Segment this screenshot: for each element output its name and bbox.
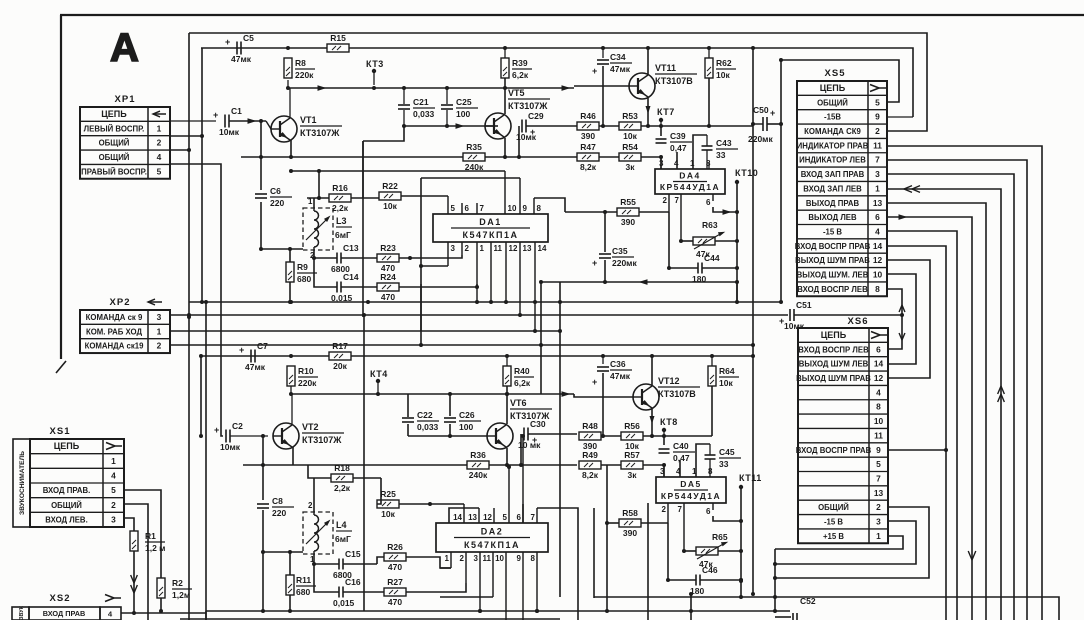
- svg-text:10: 10: [873, 270, 883, 280]
- resistor R64: [708, 366, 716, 386]
- junction: [376, 392, 380, 396]
- wire DA2 pin1 left: [440, 567, 451, 569]
- svg-text:470: 470: [388, 597, 402, 607]
- svg-text:1: 1: [876, 531, 881, 541]
- transistor VT5: [485, 113, 511, 139]
- wire base entry: [574, 85, 630, 87]
- svg-text:C40: C40: [673, 441, 689, 451]
- capacitor C1: [224, 115, 226, 128]
- wire pin1 C45: [696, 444, 710, 477]
- wire C50 wires: [767, 123, 781, 125]
- junction: [288, 609, 292, 613]
- wire DA1 pin10 rail: [291, 170, 505, 172]
- svg-text:C6: C6: [270, 186, 281, 196]
- wire L4 pin2 up: [313, 478, 315, 512]
- svg-text:4: 4: [157, 152, 162, 162]
- wire C2 to VT2 base: [230, 435, 268, 437]
- resistor R27: [384, 588, 406, 596]
- svg-text:13: 13: [874, 488, 884, 498]
- junction: [408, 256, 412, 260]
- IC DA5 bottom pins: [667, 503, 669, 523]
- svg-text:1: 1: [480, 244, 485, 253]
- svg-text:220мк: 220мк: [612, 258, 637, 268]
- svg-text:C45: C45: [719, 447, 735, 457]
- wire DA2 pin13 left: [449, 508, 479, 523]
- wire v648 low: [647, 503, 649, 620]
- IC DA4 bottom pins: [668, 194, 670, 212]
- svg-text:КТ4: КТ4: [370, 369, 388, 379]
- arrow: [998, 386, 1005, 394]
- svg-text:R25: R25: [380, 489, 396, 499]
- junction: [261, 434, 265, 438]
- junction: [682, 549, 686, 553]
- wire v560: [559, 282, 561, 597]
- resistor R58: [619, 519, 641, 527]
- svg-text:R10: R10: [298, 366, 314, 376]
- svg-text:3: 3: [474, 554, 479, 563]
- svg-text:VT2: VT2: [302, 422, 319, 432]
- svg-text:C13: C13: [343, 243, 359, 253]
- junction: [289, 155, 293, 159]
- wire L3 pin1 riser: [318, 171, 320, 198]
- wire C35: [604, 212, 606, 252]
- svg-text:R56: R56: [624, 421, 640, 431]
- transistor VT1: [271, 116, 297, 142]
- resistor R2: [157, 578, 165, 598]
- junction: [519, 463, 523, 467]
- svg-text:220мк: 220мк: [748, 134, 773, 144]
- wire VT2 collector rail: [291, 393, 574, 395]
- svg-text:R22: R22: [382, 181, 398, 191]
- junction: [710, 354, 714, 358]
- svg-text:А: А: [110, 26, 139, 70]
- svg-text:R27: R27: [387, 577, 403, 587]
- wire ground loop top: [781, 60, 899, 102]
- wire C46 line: [668, 579, 696, 581]
- svg-text:R57: R57: [624, 450, 640, 460]
- capacitor C40: [659, 448, 670, 450]
- wire R22 to DA1: [401, 195, 448, 197]
- svg-text:12: 12: [509, 244, 518, 253]
- svg-text:C21: C21: [413, 97, 429, 107]
- junction: [372, 86, 376, 90]
- svg-text:R16: R16: [332, 183, 348, 193]
- wire XS5 row8 in: [888, 189, 1001, 620]
- svg-text:1: 1: [308, 197, 313, 206]
- arrow: [899, 305, 905, 312]
- junction: [659, 155, 663, 159]
- wire bottom return top channel: [541, 281, 737, 283]
- svg-text:1: 1: [111, 456, 116, 466]
- svg-text:ВЫХОД ШУМ ПРАВ: ВЫХОД ШУМ ПРАВ: [796, 374, 871, 383]
- svg-text:ЦЕПЬ: ЦЕПЬ: [820, 83, 846, 93]
- svg-text:ОБЩИЙ: ОБЩИЙ: [51, 501, 82, 510]
- svg-text:ХS6: ХS6: [848, 316, 869, 327]
- junction: [739, 595, 743, 599]
- wire bottom bus 611: [206, 610, 790, 612]
- capacitor C36: [602, 356, 604, 364]
- svg-text:ЗВУК: ЗВУК: [19, 605, 25, 620]
- svg-text:ИНДИКАТОР ЛЕВ: ИНДИКАТОР ЛЕВ: [799, 156, 866, 165]
- svg-text:7: 7: [531, 513, 536, 522]
- wire L3 pin1 up: [313, 198, 315, 208]
- arrow: [131, 575, 138, 583]
- wire R47-R54: [599, 156, 619, 158]
- svg-text:C7: C7: [257, 341, 268, 351]
- capacitor C35: [599, 253, 611, 255]
- svg-text:R40: R40: [514, 366, 530, 376]
- svg-text:КТ3107В: КТ3107В: [658, 389, 696, 399]
- wire C15 left: [314, 563, 339, 565]
- svg-text:+: +: [225, 37, 230, 47]
- svg-text:0,033: 0,033: [413, 109, 435, 119]
- wire v692: [690, 594, 692, 620]
- svg-text:R54: R54: [622, 142, 638, 152]
- wire R9 bottom: [289, 282, 291, 302]
- svg-text:VT5: VT5: [508, 88, 525, 98]
- wire XS5 row13 to XS6 row4: [887, 260, 930, 378]
- wire XS6 row14 out: [775, 521, 916, 564]
- junction: [650, 434, 654, 438]
- svg-text:2: 2: [157, 138, 162, 148]
- svg-text:КТ3107В: КТ3107В: [655, 76, 693, 86]
- wire VT1 emitter run: [241, 156, 463, 158]
- svg-text:13: 13: [523, 244, 532, 253]
- junction: [428, 502, 432, 506]
- svg-text:10к: 10к: [381, 509, 395, 519]
- svg-text:VT6: VT6: [510, 398, 527, 408]
- svg-text:1: 1: [157, 123, 162, 133]
- capacitor C25: [446, 88, 448, 104]
- svg-text:R58: R58: [622, 508, 638, 518]
- svg-text:ОБЩИЙ: ОБЩИЙ: [817, 98, 848, 107]
- svg-text:220: 220: [272, 508, 286, 518]
- wire DA1 pin8 rail: [534, 198, 565, 212]
- junction: [445, 86, 449, 90]
- wire XP1 pin2: [170, 136, 202, 302]
- wire XP1 pin5 right drop: [170, 164, 223, 436]
- junction: [261, 609, 265, 613]
- svg-text:390: 390: [581, 131, 595, 141]
- wire VT1 collector: [289, 88, 291, 117]
- wire XS5 row15 to XS6 row2: [887, 289, 902, 349]
- svg-text:VT1: VT1: [300, 115, 317, 125]
- svg-text:КТ3107Ж: КТ3107Ж: [508, 101, 548, 111]
- junction: [132, 611, 136, 615]
- wire C14 right: [341, 286, 377, 288]
- svg-text:КОМАНДА ск19: КОМАНДА ск19: [85, 342, 145, 351]
- junction: [558, 329, 562, 333]
- svg-text:DA1: DA1: [479, 217, 502, 227]
- svg-text:8: 8: [708, 467, 713, 476]
- junction: [605, 521, 609, 525]
- wire v189 long: [188, 33, 190, 620]
- svg-text:-15 В: -15 В: [824, 518, 843, 527]
- wire VT2 emitter: [292, 447, 294, 465]
- svg-text:12: 12: [874, 373, 884, 383]
- resistor R17: [329, 352, 351, 360]
- wire pin2 drop 2: [667, 523, 669, 580]
- svg-text:ВЫХОД ШУМ. ЛЕВ: ВЫХОД ШУМ. ЛЕВ: [797, 271, 869, 280]
- resistor R49: [579, 461, 601, 469]
- svg-text:11: 11: [873, 140, 882, 150]
- junction: [289, 169, 293, 173]
- svg-text:R11: R11: [296, 575, 311, 585]
- svg-text:14: 14: [874, 359, 884, 369]
- capacitor C16: [338, 587, 340, 598]
- svg-text:2: 2: [876, 502, 881, 512]
- svg-text:ЦЕПЬ: ЦЕПЬ: [821, 330, 847, 340]
- wire C6 hang: [260, 121, 262, 190]
- svg-text:R15: R15: [330, 33, 346, 43]
- wire pin1 C43: [693, 135, 707, 169]
- svg-text:7: 7: [675, 196, 680, 205]
- svg-text:ЗВУКОСНИМАТЕЛЬ: ЗВУКОСНИМАТЕЛЬ: [19, 451, 26, 515]
- svg-text:К547КП1А: К547КП1А: [463, 230, 519, 240]
- wire R40 bottom: [506, 386, 508, 424]
- svg-text:4: 4: [676, 467, 681, 476]
- wire DA2 pin7 right: [537, 508, 578, 620]
- svg-text:ЛЕВЫЙ ВОСПР.: ЛЕВЫЙ ВОСПР.: [84, 124, 145, 133]
- resistor R39: [501, 58, 509, 78]
- svg-text:КТ10: КТ10: [735, 168, 758, 178]
- svg-text:ПРАВЫЙ ВОСПР.: ПРАВЫЙ ВОСПР.: [81, 167, 147, 176]
- wire emitter join: [485, 125, 498, 127]
- junction: [317, 196, 321, 200]
- svg-text:2: 2: [465, 244, 470, 253]
- junction: [603, 280, 607, 284]
- wire R24 out: [399, 284, 477, 287]
- svg-text:R53: R53: [622, 111, 638, 121]
- svg-text:10мк: 10мк: [219, 127, 240, 137]
- junction: [419, 264, 423, 268]
- wire L4 pin1: [313, 554, 315, 564]
- svg-text:3: 3: [111, 514, 116, 524]
- svg-text:К547КП1А: К547КП1А: [464, 540, 520, 550]
- wire XS6 row9 out: [888, 449, 946, 451]
- svg-text:1: 1: [692, 467, 697, 476]
- svg-text:9: 9: [523, 204, 528, 213]
- wire KT7 node: [660, 126, 662, 136]
- transistor VT6: [487, 423, 513, 449]
- svg-text:7: 7: [876, 473, 881, 483]
- wire VT12 collector: [651, 356, 653, 385]
- wire R23 out: [399, 255, 462, 258]
- wire base entry 2: [574, 394, 634, 397]
- svg-text:C44: C44: [704, 253, 720, 263]
- wire R55 line: [565, 211, 617, 213]
- wire R26 line: [377, 557, 384, 564]
- svg-text:+: +: [592, 377, 597, 387]
- svg-text:C39: C39: [670, 131, 686, 141]
- svg-text:6: 6: [706, 198, 711, 207]
- wire XP2 pin1 line: [170, 330, 560, 332]
- wire v421: [420, 284, 422, 331]
- capacitor C50: [753, 123, 763, 125]
- wire R25 line: [377, 478, 381, 504]
- svg-text:R64: R64: [719, 366, 735, 376]
- wire bottom edge: [180, 618, 560, 620]
- svg-text:C36: C36: [610, 359, 626, 369]
- resistor R63 variable: [693, 237, 715, 245]
- wire C34 down: [602, 66, 604, 126]
- resistor R46: [577, 122, 599, 130]
- svg-text:КТ8: КТ8: [660, 417, 678, 427]
- junction: [402, 86, 406, 90]
- svg-text:1: 1: [445, 554, 450, 563]
- svg-text:47мк: 47мк: [610, 64, 631, 74]
- svg-text:9: 9: [517, 554, 522, 563]
- junction: [200, 134, 204, 138]
- wire shield row 2: [263, 551, 303, 553]
- wire mid ground rail: [189, 301, 781, 303]
- arrow: [562, 391, 571, 397]
- junction: [601, 354, 605, 358]
- svg-text:C52: C52: [800, 596, 816, 606]
- svg-text:3: 3: [451, 244, 456, 253]
- wire komanda top: [189, 33, 927, 131]
- junction: [505, 463, 509, 467]
- transistor VT12: [633, 384, 659, 410]
- wire C13 right: [341, 257, 377, 259]
- svg-text:C8: C8: [272, 496, 283, 506]
- svg-text:14: 14: [873, 241, 883, 251]
- wire R48-R56: [601, 435, 621, 437]
- wire C16 left: [314, 564, 339, 592]
- resistor R15: [327, 44, 349, 52]
- svg-text:8: 8: [531, 554, 536, 563]
- resistor R22: [379, 192, 401, 200]
- wire XP1 pin1 to C1: [170, 120, 216, 122]
- wire R64 bottom: [711, 386, 713, 436]
- svg-text:100: 100: [459, 422, 473, 432]
- junction: [707, 46, 711, 50]
- svg-text:+: +: [770, 108, 775, 118]
- svg-text:C50: C50: [753, 105, 769, 115]
- svg-text:13: 13: [873, 198, 883, 208]
- svg-text:+: +: [592, 258, 597, 268]
- junction: [362, 313, 366, 317]
- inductor L3: [303, 208, 333, 250]
- arrow: [562, 85, 571, 91]
- svg-text:КР544УД1А: КР544УД1А: [661, 491, 721, 501]
- capacitor C45: [705, 454, 716, 456]
- wire R25 out: [399, 503, 464, 505]
- arrow: [899, 333, 905, 340]
- wire v781: [780, 60, 782, 124]
- svg-text:ВЫХОД ШУМ ПРАВ: ВЫХОД ШУМ ПРАВ: [795, 256, 870, 265]
- capacitor C14: [336, 282, 338, 293]
- svg-text:2: 2: [875, 126, 880, 136]
- svg-text:680: 680: [296, 587, 310, 597]
- svg-text:C34: C34: [610, 52, 626, 62]
- wire VT2 emitter run: [243, 464, 308, 466]
- svg-text:12: 12: [483, 513, 492, 522]
- junction: [646, 124, 650, 128]
- wire C6 down: [260, 202, 262, 249]
- svg-text:C2: C2: [232, 421, 243, 431]
- capacitor C44: [697, 263, 699, 274]
- wire R10 bottom: [290, 386, 292, 394]
- resistor R65 variable: [696, 547, 718, 555]
- wire L3 pin2: [313, 250, 315, 258]
- arrow: [318, 85, 327, 91]
- svg-text:C25: C25: [456, 97, 472, 107]
- wire DA4 pin4: [676, 152, 678, 169]
- connector XP2 header arrow: [148, 301, 162, 303]
- junction: [605, 609, 609, 613]
- junction: [735, 266, 739, 270]
- svg-text:0,033: 0,033: [417, 422, 439, 432]
- svg-text:C22: C22: [417, 410, 433, 420]
- svg-text:ВЫХОД ШУМ ЛЕВ: ВЫХОД ШУМ ЛЕВ: [799, 360, 869, 369]
- resistor R47: [577, 153, 599, 161]
- svg-text:5: 5: [503, 513, 508, 522]
- resistor R55: [617, 208, 639, 216]
- svg-text:5: 5: [157, 166, 162, 176]
- wire bottom return lower channel: [594, 596, 741, 598]
- wire C30 drop: [520, 434, 522, 465]
- junction: [689, 592, 693, 596]
- connector XS2: [12, 593, 121, 620]
- junction: [751, 354, 755, 358]
- svg-text:1: 1: [875, 183, 880, 193]
- svg-text:10к: 10к: [719, 378, 733, 388]
- svg-text:ОБЩИЙ: ОБЩИЙ: [99, 153, 130, 162]
- capacitor C43: [702, 145, 713, 147]
- svg-text:0,47: 0,47: [670, 143, 687, 153]
- junction: [739, 519, 743, 523]
- junction: [503, 155, 507, 159]
- resistor R35: [463, 153, 485, 161]
- junction: [187, 315, 191, 319]
- svg-text:R18: R18: [334, 463, 350, 473]
- junction: [419, 343, 423, 347]
- junction: [503, 86, 507, 90]
- svg-text:100: 100: [456, 109, 470, 119]
- wire v775: [774, 549, 776, 611]
- junction: [475, 285, 479, 289]
- wire R16-R22: [351, 197, 379, 199]
- svg-text:1,2м: 1,2м: [172, 590, 190, 600]
- wire v594: [593, 508, 595, 598]
- wire v523: [522, 504, 524, 523]
- svg-text:11: 11: [483, 554, 492, 563]
- svg-text:C5: C5: [243, 33, 254, 43]
- svg-text:6мГ: 6мГ: [335, 534, 351, 544]
- wire R63 right: [715, 240, 737, 242]
- wire XS6 row13 out: [775, 507, 929, 578]
- svg-text:220: 220: [270, 198, 284, 208]
- wire C30 right: [528, 433, 577, 435]
- arrow: [968, 551, 976, 560]
- capacitor C39: [656, 138, 667, 140]
- transistor VT11: [629, 73, 655, 99]
- wire v541: [540, 282, 542, 394]
- svg-text:680: 680: [297, 274, 311, 284]
- svg-text:ВХОД ВОСПР ЛЕВ: ВХОД ВОСПР ЛЕВ: [797, 285, 868, 294]
- wire DA1 pin9 rail: [421, 177, 520, 179]
- svg-text:6: 6: [465, 204, 470, 213]
- svg-text:КТ7: КТ7: [657, 107, 675, 117]
- svg-text:11: 11: [494, 244, 503, 253]
- wire C13 left: [314, 257, 337, 259]
- svg-text:C46: C46: [702, 565, 718, 575]
- junction: [773, 562, 777, 566]
- resistor R36: [467, 461, 489, 469]
- transistor VT2: [273, 423, 299, 449]
- svg-text:R47: R47: [580, 142, 596, 152]
